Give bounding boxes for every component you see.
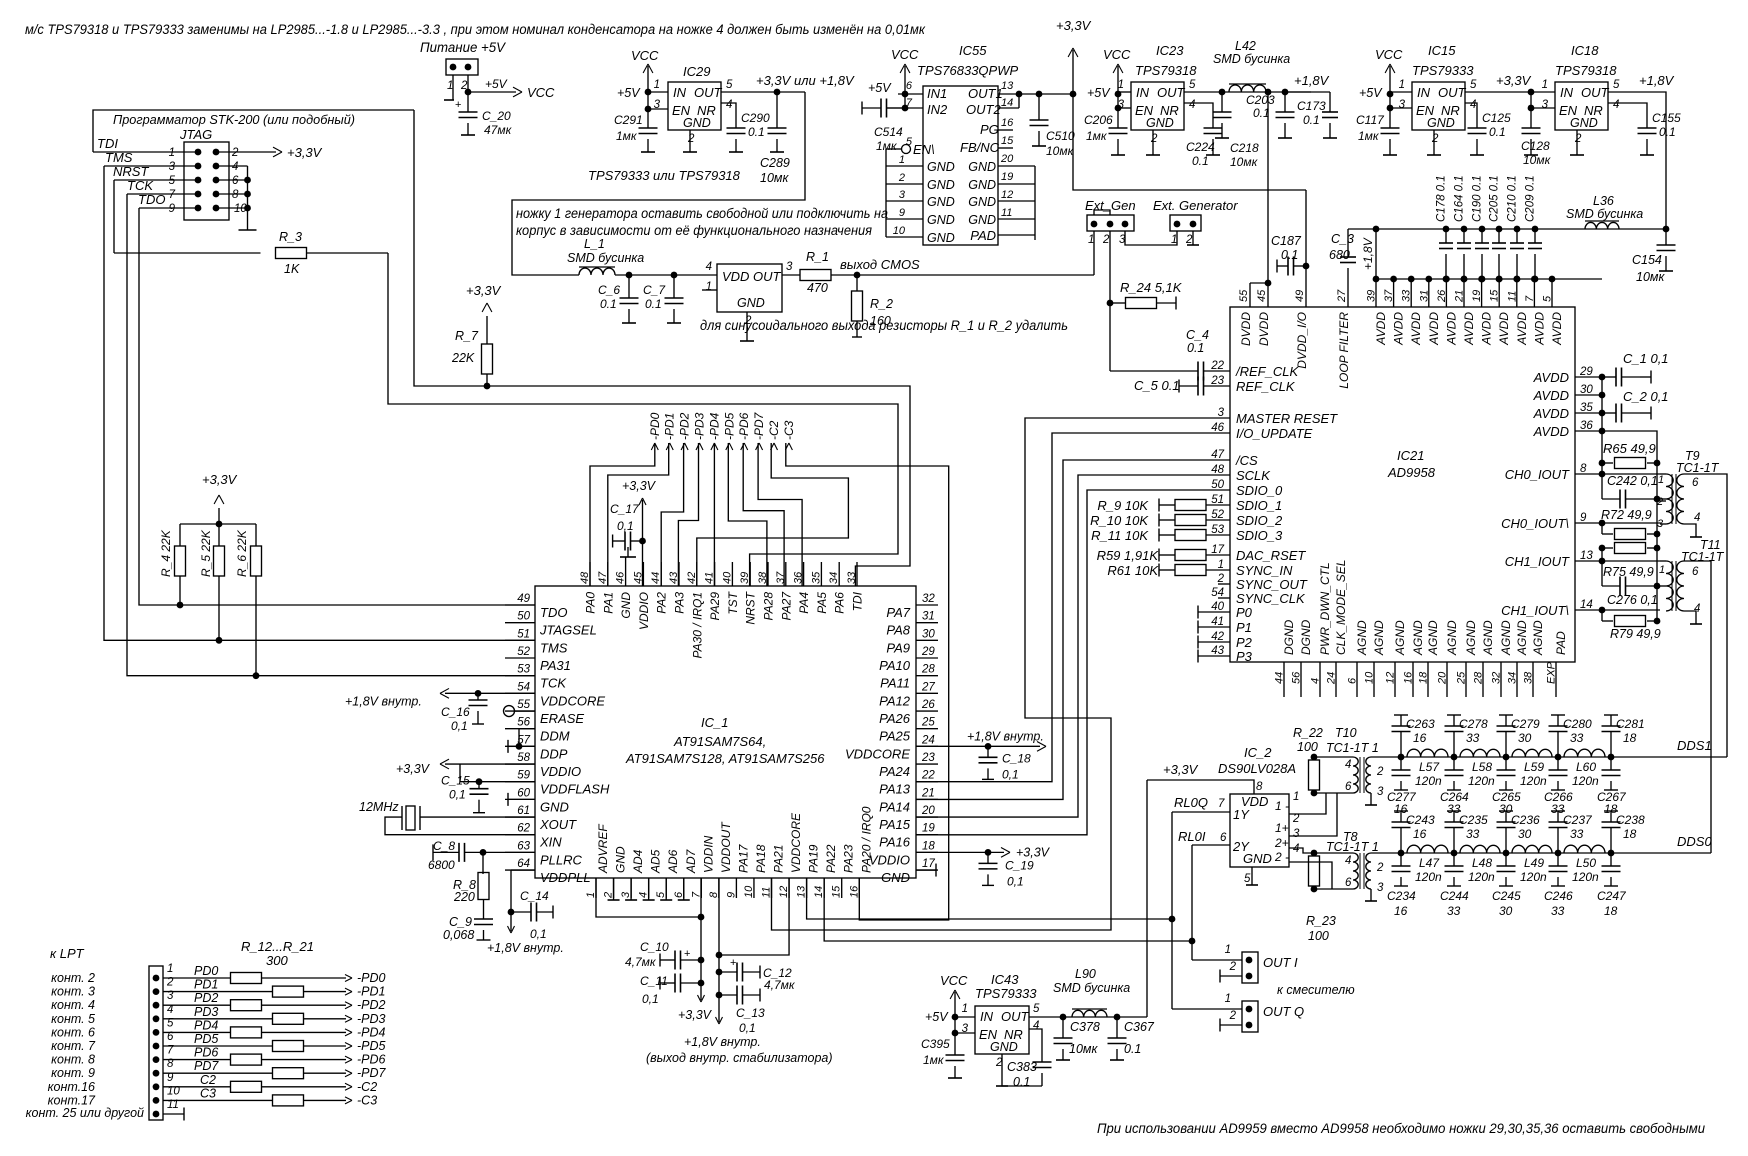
svg-text:+1,8V внутр.: +1,8V внутр. [967,729,1044,743]
svg-text:46: 46 [1211,422,1224,434]
svg-text:C281: C281 [1616,717,1645,731]
svg-text:20: 20 [921,805,935,817]
svg-text:53: 53 [1211,524,1224,536]
capacitor C218 10мк [1284,92,1286,112]
svg-text:C367: C367 [1124,1020,1155,1034]
svg-text:48: 48 [579,571,591,584]
svg-text:P0: P0 [1236,605,1253,620]
svg-text:0,1: 0,1 [739,1021,756,1035]
svg-text:PD4: PD4 [194,1018,218,1032]
svg-text:C_2 0,1: C_2 0,1 [1623,389,1669,404]
svg-text:C218: C218 [1230,141,1259,155]
wire TCK vertical [127,194,535,676]
svg-text:4: 4 [638,892,650,898]
svg-text:DDS1: DDS1 [1677,738,1712,753]
svg-text:10мк: 10мк [1230,155,1259,169]
svg-text:VDDIN: VDDIN [701,835,715,873]
svg-text:2: 2 [231,147,239,159]
capacitor C246 33 [1557,853,1559,866]
svg-text:SYNC_CLK: SYNC_CLK [1236,591,1306,606]
svg-text:VCC: VCC [891,47,919,62]
svg-text:0,068: 0,068 [443,928,474,942]
svg-text:SMD бусинка: SMD бусинка [1566,207,1643,221]
wire IC_2 1- to T10 [1289,793,1326,814]
svg-text:+3,3V: +3,3V [287,145,323,160]
svg-text:20: 20 [1437,671,1449,685]
svg-text:6800: 6800 [428,858,455,872]
svg-text:Ext. Generator: Ext. Generator [1153,198,1238,213]
svg-text:C235: C235 [1459,813,1488,827]
svg-text:16: 16 [1403,671,1415,684]
svg-text:AVDD: AVDD [1533,370,1569,385]
svg-text:AD6: AD6 [666,849,680,874]
svg-text:40: 40 [1211,601,1224,613]
svg-text:C_14: C_14 [520,889,549,903]
svg-text:1мк: 1мк [1086,129,1108,143]
svg-text:17: 17 [922,858,935,870]
svg-text:AVDD: AVDD [1533,406,1569,421]
svg-text:+1,8V: +1,8V [1361,237,1375,270]
svg-text:GND: GND [968,213,996,227]
svg-text:C238: C238 [1616,813,1645,827]
svg-text:1: 1 [654,79,660,91]
svg-text:C291: C291 [614,113,643,127]
svg-text:PA11: PA11 [880,676,910,691]
svg-text:AD5: AD5 [649,849,663,874]
svg-text:/REF_CLK: /REF_CLK [1235,364,1299,379]
svg-text:+1,8V внутр.: +1,8V внутр. [345,694,422,708]
svg-text:PA25: PA25 [879,729,911,744]
svg-text:SDIO_2: SDIO_2 [1236,513,1283,528]
svg-text:SDIO_1: SDIO_1 [1236,498,1282,513]
wire /CS net [916,460,1230,799]
svg-text:SMD бусинка: SMD бусинка [567,251,644,265]
svg-text:AGND: AGND [1426,620,1440,656]
svg-text:PA16: PA16 [879,835,911,850]
svg-text:28: 28 [921,664,935,676]
svg-text:PLLRC: PLLRC [540,852,583,867]
svg-text:IC23: IC23 [1156,43,1184,58]
svg-text:0,1: 0,1 [1002,767,1019,781]
svg-text:16: 16 [1394,904,1408,918]
capacitor C244 33 [1453,853,1455,866]
svg-text:TDO: TDO [540,605,567,620]
svg-text:30: 30 [922,628,935,640]
svg-text:R75 49,9: R75 49,9 [1603,565,1654,579]
IC IC_1 AT91SAM7S [535,586,916,878]
capacitor C_10 4,7мк [698,957,705,964]
DDS1 filter row [1401,756,1611,758]
capacitor C_14 0,1 [508,909,515,916]
wire PG stub [998,129,1013,131]
svg-text:R61 10K: R61 10K [1107,563,1159,578]
capacitor C224 0.1 [1184,103,1213,122]
svg-text:C224: C224 [1186,140,1215,154]
svg-text:9: 9 [899,207,905,219]
svg-text:48: 48 [1211,464,1224,476]
svg-text:IN: IN [1136,85,1150,100]
svg-text:R65 49,9: R65 49,9 [1603,441,1656,456]
capacitor C265 30 [1505,757,1507,770]
svg-text:19: 19 [1471,290,1483,302]
svg-text:22K: 22K [451,351,475,365]
svg-text:конт. 6: конт. 6 [51,1025,95,1039]
svg-text:R_1: R_1 [806,250,829,264]
svg-text:L60: L60 [1576,760,1596,774]
capacitor C289 10мк [776,92,778,128]
wire -C2 line to PA30/IRQ1 [697,443,849,586]
svg-text:C_7: C_7 [643,283,666,297]
svg-text:EXP: EXP [1546,661,1558,684]
svg-text:9: 9 [1580,512,1587,524]
svg-text:C263: C263 [1406,717,1435,731]
capacitor C154 10мк [1663,226,1670,233]
svg-text:13: 13 [1001,80,1014,92]
svg-text:PD6: PD6 [194,1046,218,1060]
svg-text:L42: L42 [1235,39,1256,53]
capacitor C264 33 [1453,757,1455,770]
resistor R_15 300 [163,1018,273,1020]
svg-text:0.1: 0.1 [1192,154,1209,168]
svg-text:AVDD: AVDD [1515,312,1529,346]
svg-text:-PD5: -PD5 [357,1039,386,1053]
svg-text:0,1: 0,1 [617,519,634,533]
wire AVDD right pins to C_1 C_2 [1575,376,1602,378]
svg-text:ADVREF: ADVREF [596,824,610,874]
svg-text:18: 18 [1623,827,1637,841]
svg-text:47: 47 [1211,449,1224,461]
svg-text:13: 13 [796,885,808,898]
capacitor C280 33 [1551,714,1565,716]
svg-text:2: 2 [898,172,905,184]
IC55 right GND bus [998,165,1035,167]
svg-text:1: 1 [1293,791,1299,803]
wires P0-P3 stubs [1198,611,1230,613]
wire NRST jtag pin5 [114,179,198,181]
svg-text:PA18: PA18 [754,844,768,873]
svg-text:конт. 25 или другой: конт. 25 или другой [26,1106,144,1120]
svg-text:-PD7: -PD7 [752,411,766,440]
svg-text:-PD6: -PD6 [737,412,751,440]
fan wires to MCU pins [590,443,655,586]
svg-text:2: 2 [1431,133,1439,145]
capacitor C383 0.1 [1029,1029,1042,1058]
svg-text:TPS79333 или TPS79318: TPS79333 или TPS79318 [588,168,741,183]
svg-text:120n: 120n [1415,774,1442,788]
wire TMS vertical [104,166,535,640]
svg-text:PG: PG [980,122,999,137]
svg-text:30: 30 [1518,731,1532,745]
svg-text:49: 49 [1294,290,1306,302]
svg-text:16: 16 [1001,117,1014,129]
svg-text:3: 3 [1399,99,1406,111]
svg-text:10мк: 10мк [1523,153,1552,167]
svg-text:к LPT: к LPT [50,946,85,961]
svg-text:TMS: TMS [540,640,568,655]
svg-text:+: + [455,99,461,111]
svg-text:59: 59 [517,770,530,782]
svg-text:26: 26 [1436,289,1448,303]
svg-text:4,7мк: 4,7мк [625,955,657,969]
svg-text:4: 4 [706,261,712,273]
svg-text:14: 14 [1580,599,1593,611]
svg-text:C276 0,1: C276 0,1 [1607,593,1658,607]
svg-text:PD2: PD2 [194,991,218,1005]
svg-text:IC18: IC18 [1571,43,1599,58]
svg-text:CH0_IOUT\: CH0_IOUT\ [1501,516,1569,531]
svg-text:51: 51 [1211,494,1224,506]
svg-text:P3: P3 [1236,649,1253,664]
svg-text:-PD0: -PD0 [648,412,662,440]
svg-text:PA24: PA24 [879,764,910,779]
svg-text:VDDPLL: VDDPLL [540,870,591,885]
svg-text:PD7: PD7 [194,1059,219,1073]
wire VDDCORE C_16 +1,8V [445,692,535,694]
svg-text:AGND: AGND [1372,620,1386,656]
svg-text:5: 5 [169,175,176,187]
svg-text:-PD2: -PD2 [678,412,692,440]
svg-text:4: 4 [1470,99,1476,111]
svg-text:9: 9 [169,203,176,215]
svg-text:GND: GND [540,799,569,814]
svg-text:5: 5 [1613,79,1620,91]
svg-text:C378: C378 [1070,1020,1100,1034]
svg-text:64: 64 [517,858,530,870]
svg-text:1: 1 [1225,993,1231,1005]
capacitor C279 30 [1499,714,1513,716]
svg-text:DVDD: DVDD [1239,312,1253,346]
svg-text:120n: 120n [1572,870,1599,884]
svg-text:ножку 1 генератора оставить св: ножку 1 генератора оставить свободной ил… [516,206,888,221]
svg-text:PA27: PA27 [779,591,793,621]
svg-text:AVDD: AVDD [1532,312,1546,346]
svg-text:17: 17 [1211,544,1224,556]
wire +3,3V dig rail to DVDD_IO [1073,94,1306,190]
svg-text:C_8: C_8 [433,839,455,853]
wire -C3 line to PA20/IRQ0 [786,443,949,920]
wire DVDD_IO pin49 riser [1305,190,1307,307]
svg-text:VDD: VDD [722,269,749,284]
svg-text:10мк: 10мк [1636,270,1665,284]
svg-text:4: 4 [1293,843,1299,855]
wire ADVREF to VDDIN [596,878,701,917]
svg-text:RL0Q: RL0Q [1174,795,1208,810]
svg-text:IC_1: IC_1 [701,715,728,730]
svg-text:C247: C247 [1597,889,1627,903]
svg-text:6: 6 [1692,477,1699,489]
svg-text:55: 55 [517,699,530,711]
svg-text:IC55: IC55 [959,43,987,58]
wire +3,3V riser to IC_2 [1146,780,1148,1017]
svg-text:22: 22 [921,770,935,782]
svg-text:OUT: OUT [1001,1009,1030,1024]
svg-text:C210 0.1: C210 0.1 [1507,175,1519,222]
svg-text:/CS: /CS [1235,453,1258,468]
DVDD pin55 pin45 bracket [1249,283,1251,307]
svg-text:33: 33 [1570,731,1584,745]
svg-text:-PD4: -PD4 [707,412,721,440]
svg-text:PA28: PA28 [762,592,776,621]
svg-text:R_9 10K: R_9 10K [1097,498,1149,513]
svg-text:2+: 2+ [1274,836,1289,850]
svg-text:-PD1: -PD1 [357,985,385,999]
svg-text:C3: C3 [200,1086,216,1100]
svg-text:63: 63 [517,840,530,852]
svg-text:1: 1 [706,281,712,293]
svg-text:62: 62 [517,823,530,835]
wire jtag pins 4-6-8-10 ground bus [216,165,248,167]
wire ext generator pin2 gnd [1192,231,1194,245]
svg-text:C395: C395 [921,1037,950,1051]
svg-text:IN2: IN2 [927,102,948,117]
svg-text:0,1: 0,1 [1007,874,1024,888]
svg-text:VCC: VCC [527,85,555,100]
wire TMS jtag pin3 [104,165,198,167]
svg-text:46: 46 [615,571,627,584]
connector OUT I [1242,952,1258,983]
svg-text:8: 8 [232,189,239,201]
svg-text:100: 100 [1308,929,1329,943]
svg-text:AT91SAM7S128, AT91SAM7S256: AT91SAM7S128, AT91SAM7S256 [625,751,825,766]
svg-text:-C2: -C2 [767,420,781,440]
svg-text:34: 34 [1507,672,1519,684]
wire jtag pin2 to +3,3V [216,151,276,153]
svg-text:32: 32 [922,593,935,605]
svg-text:PA30 / IRQ1: PA30 / IRQ1 [690,592,704,658]
svg-text:конт. 4: конт. 4 [51,998,95,1012]
svg-text:PA12: PA12 [879,693,911,708]
svg-text:+3,3V: +3,3V [678,1008,713,1022]
svg-text:DGND: DGND [1282,619,1296,655]
svg-text:AVDD: AVDD [1392,312,1406,346]
svg-text:34: 34 [828,572,840,584]
svg-text:PA7: PA7 [886,605,910,620]
wire IC29 GND pin2 [689,130,691,152]
capacitor C_15 0,1 [478,782,480,789]
svg-text:TPS79333: TPS79333 [1412,63,1474,78]
connector OUT Q [1242,1001,1258,1032]
svg-text:1: 1 [899,154,905,166]
svg-text:10: 10 [893,225,906,237]
svg-text:SDIO_3: SDIO_3 [1236,528,1283,543]
wire MASTER RESET net [772,418,1231,930]
svg-text:R72 49,9: R72 49,9 [1601,508,1652,522]
inductor L58 120n [1460,749,1500,757]
svg-text:PA23: PA23 [842,844,856,873]
svg-text:1 -: 1 - [1275,799,1289,813]
svg-text:6: 6 [1345,877,1352,889]
capacitor C510 10мк [1038,94,1040,120]
svg-text:-PD4: -PD4 [357,1025,386,1039]
svg-text:DDS0: DDS0 [1677,834,1712,849]
svg-text:61: 61 [517,805,530,817]
svg-text:C278: C278 [1459,717,1488,731]
svg-text:C383: C383 [1007,1060,1037,1074]
svg-text:IC_2: IC_2 [1244,745,1272,760]
svg-text:30: 30 [1580,384,1593,396]
svg-text:51: 51 [517,628,530,640]
svg-text:60: 60 [517,787,530,799]
svg-text:120n: 120n [1572,774,1599,788]
connector X1 power input [446,59,478,75]
svg-text:5: 5 [906,136,913,148]
svg-text:L50: L50 [1576,856,1596,870]
resistor R_14 300 [163,1004,231,1006]
svg-text:SDIO_0: SDIO_0 [1236,483,1283,498]
svg-text:LOOP FILTER: LOOP FILTER [1337,312,1351,389]
svg-text:1мк: 1мк [876,139,898,153]
svg-text:P1: P1 [1236,620,1252,635]
svg-text:0.1: 0.1 [645,297,662,311]
svg-text:+3,3V: +3,3V [396,762,431,776]
svg-text:+1,8V внутр.: +1,8V внутр. [487,941,564,955]
svg-text:44: 44 [1274,672,1286,684]
svg-text:15: 15 [1001,135,1014,147]
svg-text:L47: L47 [1419,856,1440,870]
svg-text:5: 5 [1244,873,1251,885]
svg-text:PA22: PA22 [824,844,838,873]
svg-text:PA4: PA4 [797,592,811,614]
inductor L48 120n [1460,845,1500,853]
svg-text:TST: TST [726,590,740,614]
svg-text:120n: 120n [1468,870,1495,884]
svg-text:10мк: 10мк [1069,1042,1098,1056]
svg-text:38: 38 [1523,671,1535,684]
svg-text:AVDD: AVDD [1533,388,1569,403]
svg-text:AVDD: AVDD [1533,424,1569,439]
svg-text:C154: C154 [1632,253,1662,267]
svg-text:SYNC_IN: SYNC_IN [1236,563,1293,578]
svg-text:2: 2 [1376,862,1384,874]
svg-text:1мк: 1мк [923,1053,945,1067]
svg-text:5: 5 [1542,295,1554,302]
svg-text:30: 30 [1518,827,1532,841]
wire +1,8V analog rail [1348,228,1666,230]
svg-text:C290: C290 [741,111,770,125]
svg-text:25: 25 [921,717,935,729]
svg-text:300: 300 [266,953,288,968]
svg-text:C_4: C_4 [1186,328,1209,342]
svg-text:+3,3V: +3,3V [1163,762,1199,777]
svg-text:4: 4 [1345,855,1351,867]
svg-text:2: 2 [1229,1010,1237,1022]
svg-text:VDDIO: VDDIO [540,764,581,779]
svg-text:GND: GND [927,231,955,245]
resistor R_17 300 [163,1045,273,1047]
svg-text:OUT1: OUT1 [968,86,1003,101]
svg-text:AGND: AGND [1464,620,1478,656]
svg-text:REF_CLK: REF_CLK [1236,379,1296,394]
svg-text:2: 2 [1150,133,1158,145]
svg-text:15: 15 [831,885,843,898]
svg-text:C209 0.1: C209 0.1 [1525,175,1537,222]
wire TDO vertical [139,208,535,605]
svg-text:8: 8 [1256,781,1263,793]
wire SCLK net [916,475,1230,817]
svg-text:R_3: R_3 [279,230,302,244]
svg-text:-PD5: -PD5 [722,412,736,440]
svg-text:C_3: C_3 [1331,232,1354,246]
svg-text:AVDD: AVDD [1427,312,1441,346]
svg-text:-PD3: -PD3 [693,412,707,440]
svg-text:49: 49 [517,593,530,605]
svg-text:GND: GND [968,195,996,209]
svg-text:R_4 22K: R_4 22K [159,529,173,577]
svg-text:4: 4 [232,161,238,173]
oscillator G1 VDD OUT [717,264,782,312]
IC55 left GND pins [886,165,923,167]
svg-text:56: 56 [1291,671,1303,684]
